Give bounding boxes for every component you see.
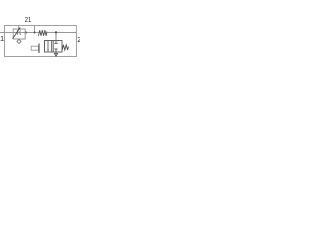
wire: pilot branch down to valve [55,33,57,41]
node at throttle box outlet [25,31,27,33]
valve right square blocked bottom [55,49,57,52]
valve left square path line 2 [51,41,53,53]
spring on pilot line [39,30,47,36]
svg-text:2: 2 [77,35,80,44]
valve divider [52,41,54,53]
wire: port1 stub + main line left part [0,32,39,34]
drain diamond below throttle [17,39,21,43]
pilot piston plate [31,46,38,50]
node junction pilot branch [55,31,57,33]
restrictor arcs inside throttle [16,30,19,34]
valve U1 body [45,41,63,53]
return spring [62,45,68,50]
svg-text:21: 21 [25,15,31,24]
valve right square blocked top [55,41,57,44]
svg-text:1: 1 [0,34,4,43]
background [0,0,80,80]
node at connector/main line [34,32,36,34]
wire: main line right part [47,32,77,34]
exhaust triangle port 3 [55,52,57,53]
enclosure frame [5,26,77,57]
adjustment arrow [13,28,20,38]
wire: vertical connector top line to main line [34,26,36,33]
wire: channel from frame top into throttle [18,26,20,30]
throttle valve box [13,29,25,39]
valve left square path line 1 [47,41,49,50]
piston bar [38,44,40,54]
